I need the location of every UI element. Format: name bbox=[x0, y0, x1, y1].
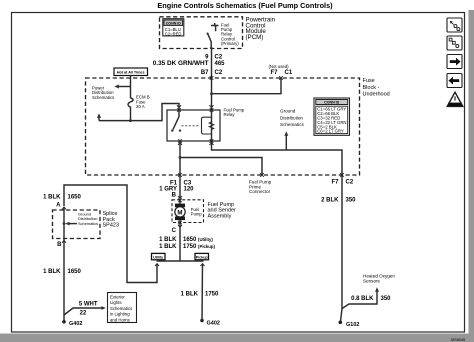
svg-text:Distribution: Distribution bbox=[280, 115, 303, 120]
svg-text:Assembly: Assembly bbox=[208, 213, 232, 219]
svg-text:1650: 1650 bbox=[68, 269, 82, 275]
svg-text:1 BLK: 1 BLK bbox=[159, 244, 177, 250]
svg-text:0.8 BLK: 0.8 BLK bbox=[351, 296, 374, 302]
svg-text:MENU: MENU bbox=[451, 103, 459, 107]
svg-text:Exterior: Exterior bbox=[110, 294, 125, 299]
svg-text:CONN ID: CONN ID bbox=[166, 21, 182, 25]
svg-text:F7: F7 bbox=[331, 180, 339, 186]
svg-text:C: C bbox=[172, 228, 177, 234]
svg-text:Underhood: Underhood bbox=[363, 92, 390, 98]
svg-text:1 BLK: 1 BLK bbox=[159, 237, 177, 243]
svg-text:350: 350 bbox=[381, 296, 392, 302]
svg-text:F7: F7 bbox=[270, 70, 278, 76]
svg-text:Hot at All Times: Hot at All Times bbox=[117, 70, 145, 74]
svg-text:A: A bbox=[56, 202, 61, 208]
svg-text:SP423: SP423 bbox=[103, 223, 120, 229]
svg-text:C2=RED: C2=RED bbox=[165, 31, 182, 36]
svg-text:C1: C1 bbox=[285, 70, 293, 76]
svg-text:(Not used): (Not used) bbox=[269, 64, 290, 69]
svg-text:1650: 1650 bbox=[68, 195, 82, 201]
svg-text:(PCM): (PCM) bbox=[246, 34, 264, 41]
svg-text:C2: C2 bbox=[215, 70, 223, 76]
svg-text:22: 22 bbox=[80, 311, 87, 317]
svg-text:and Horns: and Horns bbox=[110, 318, 130, 323]
svg-text:M: M bbox=[177, 209, 182, 216]
svg-text:G402: G402 bbox=[207, 321, 220, 327]
svg-text:MS8045: MS8045 bbox=[451, 338, 465, 342]
svg-text:Schematics: Schematics bbox=[92, 95, 114, 100]
svg-text:Fuse: Fuse bbox=[363, 78, 375, 84]
svg-text:Engine Controls Schematics (Fu: Engine Controls Schematics (Fuel Pump Co… bbox=[157, 1, 333, 10]
svg-text:2 BLK: 2 BLK bbox=[321, 198, 339, 204]
svg-text:Sensors: Sensors bbox=[363, 279, 381, 284]
svg-text:F1: F1 bbox=[170, 181, 178, 187]
svg-text:C2: C2 bbox=[346, 180, 354, 186]
svg-text:465: 465 bbox=[215, 61, 226, 67]
svg-text:Schematics: Schematics bbox=[280, 122, 304, 127]
svg-text:1 BLK: 1 BLK bbox=[43, 269, 61, 275]
svg-text:120: 120 bbox=[184, 187, 195, 193]
svg-text:1 BLK: 1 BLK bbox=[181, 292, 199, 298]
svg-text:1 BLK: 1 BLK bbox=[43, 195, 61, 201]
svg-text:CONN ID: CONN ID bbox=[324, 101, 340, 105]
svg-text:Schematics: Schematics bbox=[78, 221, 98, 226]
svg-text:5 WHT: 5 WHT bbox=[79, 302, 98, 308]
svg-text:1750: 1750 bbox=[205, 292, 219, 298]
svg-text:(Primary): (Primary) bbox=[221, 41, 239, 46]
svg-text:Ground: Ground bbox=[280, 108, 296, 113]
svg-text:Connector: Connector bbox=[249, 189, 271, 194]
svg-text:0.35 DK GRN/WHT: 0.35 DK GRN/WHT bbox=[153, 60, 209, 67]
svg-text:Pump: Pump bbox=[191, 211, 203, 216]
svg-text:C2: C2 bbox=[215, 54, 223, 60]
svg-text:Schematics: Schematics bbox=[110, 306, 132, 311]
svg-text:Relay: Relay bbox=[224, 112, 236, 117]
svg-text:Utility: Utility bbox=[153, 255, 163, 259]
svg-text:B: B bbox=[172, 193, 177, 199]
svg-text:C3: C3 bbox=[184, 181, 192, 187]
svg-text:B7: B7 bbox=[201, 70, 209, 76]
svg-text:in Lighting: in Lighting bbox=[110, 312, 130, 317]
svg-text:B: B bbox=[57, 242, 62, 248]
svg-text:350: 350 bbox=[346, 198, 357, 204]
svg-text:Block -: Block - bbox=[363, 85, 380, 91]
svg-text:Lights: Lights bbox=[110, 300, 121, 305]
svg-text:Pickup: Pickup bbox=[196, 255, 209, 259]
svg-text:G102: G102 bbox=[346, 322, 359, 328]
svg-text:20 A: 20 A bbox=[136, 104, 145, 109]
svg-text:G402: G402 bbox=[69, 321, 82, 327]
svg-text:C6=2 LT GRY: C6=2 LT GRY bbox=[317, 129, 344, 134]
